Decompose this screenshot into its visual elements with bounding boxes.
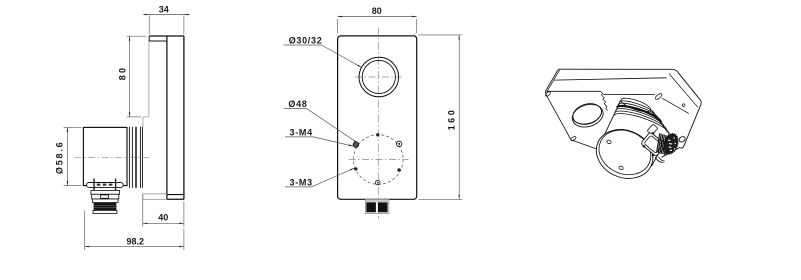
encoder servo-flange rings (128, 127, 130, 188)
top face front edge (554, 78, 666, 80)
flange cone edges (651, 110, 669, 134)
boss face left edge (545, 91, 624, 159)
connector flange top tab (647, 124, 658, 135)
boss block step profile (thin) (143, 41, 149, 127)
svg-text:3-M3: 3-M3 (290, 177, 313, 187)
svg-text:34: 34 (159, 4, 169, 14)
svg-text:Ø48: Ø48 (288, 99, 307, 109)
connector square flange (3D) (641, 132, 666, 157)
bolt-circle horizontal centerline (349, 159, 409, 161)
bolt circle diameter 48 (dashed) (354, 135, 404, 185)
svg-text:80: 80 (372, 6, 382, 16)
svg-text:Ø58.6: Ø58.6 (55, 141, 65, 175)
flange rings (arcs) (619, 101, 654, 114)
svg-text:80: 80 (117, 66, 127, 80)
hole M3 top (376, 133, 379, 136)
cable bushing loop (678, 136, 686, 143)
plate face P1 (338, 36, 417, 199)
svg-text:Ø30/32: Ø30/32 (289, 35, 323, 45)
hole on end face (682, 104, 685, 107)
hole M4 bottom (376, 180, 381, 185)
dim 40 (plate to flange face) (142, 194, 144, 227)
bottom cap (thin, hidden) (143, 193, 167, 195)
connector (front view, bottom) (365, 199, 388, 213)
dim 98.2 (overall depth) (84, 211, 86, 250)
hole M4 right (397, 141, 402, 146)
face screw holes (606, 140, 611, 145)
big hole diameter 30/32 (359, 57, 399, 97)
connector J1 (side view, below encoder) (87, 183, 124, 188)
big hole (3D) (569, 101, 606, 131)
slab left end edge (double) (545, 69, 558, 91)
bracket plate (side) (166, 36, 168, 199)
hole M3 lower-left (354, 167, 357, 170)
dim 160 (plate height) (419, 34, 463, 36)
vertical centerline (377, 28, 379, 220)
face top-right corner fillet (654, 93, 663, 101)
dim diameter 58.6 (encoder body) (64, 126, 82, 128)
encoder body E1 (side view) (83, 127, 127, 185)
plate face right edge (662, 98, 689, 113)
svg-text:98.2: 98.2 (127, 237, 145, 247)
notch break line (601, 91, 608, 110)
corner hole top-left (545, 91, 551, 97)
hole M3 lower-right (397, 168, 400, 171)
dim 80 (plate width) (337, 19, 339, 33)
hole M4 left (353, 142, 359, 148)
svg-text:3-M4: 3-M4 (290, 127, 313, 137)
crosshair of big hole (355, 76, 402, 78)
body right tangent (652, 134, 670, 166)
encoder front face (589, 121, 661, 187)
boss face top edge (547, 90, 601, 92)
isometric view of assembly (545, 69, 702, 187)
corner hole bottom-left (570, 136, 577, 141)
encoder+flange silhouette white infill (597, 100, 670, 178)
front view of bracket plate (284, 6, 463, 219)
dim 34 (plate+boss depth) (148, 16, 150, 35)
top-right corner fillet inner line (669, 74, 698, 108)
left view: side view of encoder on bracket (55, 4, 190, 250)
plate face top edge (603, 94, 655, 96)
svg-text:160: 160 (447, 108, 457, 131)
centerline of encoder axis (75, 157, 152, 159)
bracket slab outline (558, 69, 701, 157)
svg-text:40: 40 (158, 213, 168, 223)
connector pin cap (dark, scalloped) (661, 132, 680, 156)
encoder rear cap (620, 95, 652, 114)
flange corner screws (652, 132, 654, 134)
cable gland below connector (655, 157, 665, 163)
dim 80 (boss height) (127, 35, 147, 37)
hole chamfer lower arc (573, 111, 602, 125)
coupling ribs (dark) (657, 133, 660, 152)
